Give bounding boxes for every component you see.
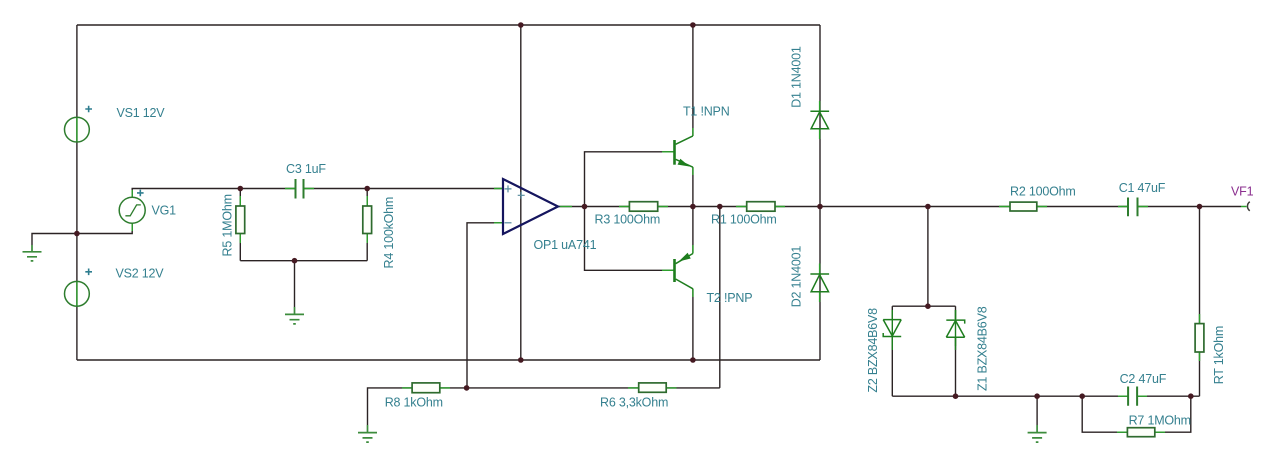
wire RT top to output xyxy=(1199,207,1201,324)
wire T2 emitter up xyxy=(692,207,694,254)
node emitters xyxy=(690,204,696,210)
pin R5 xyxy=(239,196,241,243)
wire R5 branch xyxy=(239,189,241,207)
node R4 top xyxy=(364,186,370,192)
resistor R3 xyxy=(629,202,657,212)
zener Z2 xyxy=(883,310,901,350)
pin RT xyxy=(1199,314,1201,361)
wire C1 to VF1 xyxy=(1138,206,1242,208)
pin R7 xyxy=(1117,431,1165,433)
pin R1 xyxy=(736,206,785,208)
generator VG1 plus sign xyxy=(137,190,144,197)
wire output line R3 R1 xyxy=(585,206,630,208)
wire R6 left to junction xyxy=(467,387,639,389)
resistor R6 xyxy=(639,383,667,392)
pin T2 emitter collector xyxy=(692,245,694,297)
svg-text:R4 100kOhm: R4 100kOhm xyxy=(382,197,396,269)
node opamp V+ on top rail xyxy=(518,22,524,28)
wire top rail xyxy=(77,24,820,26)
node ground right xyxy=(1034,393,1040,399)
wire R2 to C1 xyxy=(1037,206,1128,208)
wire left rail xyxy=(76,25,78,360)
capacitor C2 xyxy=(1128,387,1137,406)
node diode rail xyxy=(817,204,823,210)
terminal VF1 xyxy=(1247,202,1249,211)
wire VG1 bottom to rail xyxy=(77,223,132,233)
node R7 right xyxy=(1188,393,1194,399)
pin C1 xyxy=(1118,206,1247,208)
wire bottom rail xyxy=(77,359,820,361)
svg-text:R1 100Ohm: R1 100Ohm xyxy=(711,213,777,227)
pin T2 base xyxy=(662,269,674,271)
svg-text:R2 100Ohm: R2 100Ohm xyxy=(1010,185,1076,199)
pin R8 xyxy=(402,387,450,389)
pin T1 collector emitter xyxy=(692,128,694,175)
wire feedback tap down xyxy=(719,207,721,388)
svg-text:C2 47uF: C2 47uF xyxy=(1120,372,1167,386)
node RC ground xyxy=(292,258,298,264)
svg-text:OP1 uA741: OP1 uA741 xyxy=(534,238,597,252)
wire Z1 pins xyxy=(955,306,957,319)
voltage source VS2 xyxy=(65,281,90,306)
wire to T2 base xyxy=(585,207,674,271)
node opamp output xyxy=(582,204,588,210)
svg-text:VS1 12V: VS1 12V xyxy=(117,106,166,120)
wire right rail xyxy=(819,25,821,360)
pin VS1 through xyxy=(76,117,78,142)
wire RC network bottom xyxy=(240,260,367,262)
pin VS2 through xyxy=(76,281,78,306)
op-amp input minus label xyxy=(505,222,512,224)
svg-text:R5 1MOhm: R5 1MOhm xyxy=(221,194,235,256)
wire zener bottom line xyxy=(892,395,1128,397)
svg-text:VF1: VF1 xyxy=(1231,185,1254,199)
wire T1 collector up xyxy=(692,25,694,136)
resistor R1 xyxy=(747,202,775,212)
resistor R5 xyxy=(236,206,245,234)
node Z1 bottom xyxy=(953,393,959,399)
wire T2 collector down xyxy=(692,289,694,360)
pin C3 xyxy=(285,188,314,190)
voltage source VS1 plus sign xyxy=(85,106,92,113)
wire RT bottom corner xyxy=(1199,352,1201,396)
svg-text:R3 100Ohm: R3 100Ohm xyxy=(595,213,661,227)
svg-text:T2 !PNP: T2 !PNP xyxy=(707,291,753,305)
op-amp supply plus marker xyxy=(518,192,525,199)
node RT top xyxy=(1197,204,1203,210)
svg-text:C3 1uF: C3 1uF xyxy=(286,162,326,176)
wire R8 left to ground xyxy=(368,388,413,425)
svg-text:R8 1kOhm: R8 1kOhm xyxy=(385,396,443,410)
transistor T1 xyxy=(675,136,693,167)
svg-text:R6 3,3kOhm: R6 3,3kOhm xyxy=(600,396,668,410)
node feedback tap xyxy=(717,204,723,210)
node feedback junction xyxy=(464,385,470,391)
pin R2 xyxy=(999,206,1047,208)
pin opamp output xyxy=(558,206,572,208)
wire opamp supply line through xyxy=(520,25,522,360)
svg-text:Z1 BZX84B6V8: Z1 BZX84B6V8 xyxy=(976,306,990,391)
op-amp OP1 xyxy=(503,179,558,234)
wire Z2 pins xyxy=(891,306,893,318)
node zener top mid xyxy=(925,303,931,309)
wire input line to opamp xyxy=(240,188,295,190)
wire ground stub left xyxy=(32,234,77,246)
pin R4 xyxy=(366,196,368,243)
resistor R4 xyxy=(363,206,372,234)
node R7 left xyxy=(1079,393,1085,399)
wire R6 right to tap xyxy=(666,387,720,389)
wire zener branch down xyxy=(927,207,929,307)
wire R7 parallel branch xyxy=(1082,396,1127,432)
COMPONENT PINS (green) xyxy=(77,101,1247,432)
svg-text:RT 1kOhm: RT 1kOhm xyxy=(1212,326,1226,384)
wire T1 emitter down xyxy=(692,167,694,206)
svg-text:D1 1N4001: D1 1N4001 xyxy=(790,46,804,108)
svg-text:C1 47uF: C1 47uF xyxy=(1119,181,1166,195)
wire R8 right lead xyxy=(440,387,467,389)
generator VG1 xyxy=(119,197,145,223)
pin C2 xyxy=(1118,395,1147,397)
resistor RT xyxy=(1195,324,1204,352)
capacitor C1 xyxy=(1128,198,1138,217)
capacitor C3 xyxy=(296,179,304,199)
pin VG1 stubs xyxy=(131,190,133,197)
pin R6 xyxy=(628,387,677,389)
wire mid ground drop xyxy=(294,261,296,307)
svg-text:VG1: VG1 xyxy=(152,204,177,218)
svg-text:D2 1N4001: D2 1N4001 xyxy=(790,246,804,308)
wire opamp minus input feedback xyxy=(467,223,503,388)
svg-text:VS2 12V: VS2 12V xyxy=(116,267,165,281)
transistor T2 xyxy=(675,254,693,289)
diode D2 xyxy=(810,274,829,292)
ground left xyxy=(23,245,42,261)
node VG1 return on left rail xyxy=(74,231,80,237)
pin D1 xyxy=(819,101,821,139)
wire zener box top xyxy=(892,305,955,307)
resistor R7 xyxy=(1127,428,1154,437)
node T2 collector on bottom rail xyxy=(690,357,696,363)
pin opamp inputs xyxy=(494,189,503,223)
pin zeners xyxy=(891,310,893,346)
pin T1 base xyxy=(662,151,674,153)
resistor R8 xyxy=(412,383,440,393)
wire VG1 top to input line xyxy=(132,189,240,198)
pin D2 xyxy=(819,264,821,303)
zener Z1 xyxy=(946,310,964,350)
op-amp input plus label xyxy=(505,185,512,192)
pin R3 xyxy=(619,206,668,208)
wire R4 branch xyxy=(366,234,368,261)
ground mid (RC network) xyxy=(285,307,304,324)
svg-text:R7 1MOhm: R7 1MOhm xyxy=(1129,414,1191,428)
node R5 top xyxy=(238,186,244,192)
voltage source VS2 plus sign xyxy=(85,269,92,276)
wire to T1 base xyxy=(585,152,674,207)
voltage source VS1 xyxy=(65,117,90,142)
svg-text:Z2 BZX84B6V8: Z2 BZX84B6V8 xyxy=(866,308,880,393)
wire opamp output xyxy=(558,206,585,208)
ground R8 xyxy=(358,425,377,442)
node T1 collector on top rail xyxy=(690,22,696,28)
ground right (zener) xyxy=(1028,425,1047,442)
node zener tap xyxy=(925,204,931,210)
diode D1 xyxy=(810,111,829,128)
resistor R2 xyxy=(1010,202,1037,211)
node opamp V- on bottom rail xyxy=(518,357,524,363)
svg-text:T1 !NPN: T1 !NPN xyxy=(683,105,730,119)
wire ground drop right xyxy=(1036,396,1038,425)
wire C2 right to RT corner xyxy=(1137,395,1199,397)
